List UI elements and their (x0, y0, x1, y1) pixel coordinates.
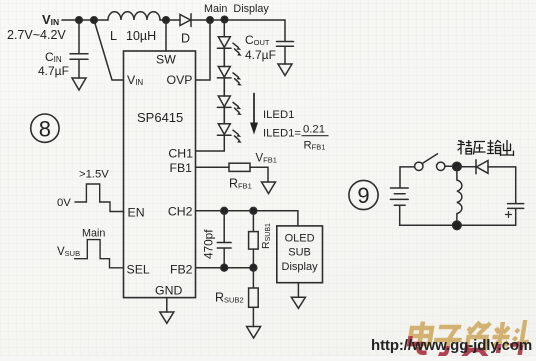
svg-text:>1.5V: >1.5V (79, 169, 109, 181)
node junction dot OVP (207, 17, 214, 24)
wire FB1 (196, 166, 229, 168)
wire battery to switch (400, 166, 415, 168)
node dot FB2-470p (221, 264, 228, 271)
node dot boost top (453, 162, 462, 171)
watermark CJK glyph dian (408, 322, 433, 353)
node dot boost bottom (453, 221, 462, 230)
svg-text:D: D (181, 32, 190, 46)
diode D (180, 14, 191, 46)
svg-text:Display: Display (282, 261, 319, 273)
capacitor CIN (38, 20, 88, 78)
wire node to diode (457, 166, 476, 168)
svg-text:RFB1: RFB1 (304, 140, 326, 152)
wire LED3-LED4 (223, 107, 225, 123)
svg-text:COUT: COUT (245, 33, 270, 47)
node figure number 8 (31, 114, 59, 142)
ground below RSUB2 (247, 327, 261, 339)
node junction dot B (91, 17, 98, 24)
wire GND pin (166, 298, 168, 312)
svg-text:CH2: CH2 (168, 205, 193, 219)
svg-text:FB2: FB2 (170, 263, 193, 277)
svg-text:OLED: OLED (285, 233, 315, 245)
watermark URL text (371, 337, 532, 354)
svg-text:http://www.gg-jdly.com: http://www.gg-jdly.com (371, 337, 532, 354)
resistor RFB1 (229, 163, 252, 190)
LED D3 (217, 79, 242, 115)
svg-text:4.7µF: 4.7µF (245, 48, 276, 62)
label >1.5V (79, 169, 109, 181)
wire diode to cap (488, 167, 516, 204)
watermark CJK red accents (407, 336, 522, 357)
watermark CJK glyph zi (432, 327, 464, 355)
wire FB2 row (196, 267, 253, 269)
label VFB1 (256, 153, 277, 165)
wire OVP pin (196, 20, 210, 80)
svg-text:CH1: CH1 (168, 147, 193, 161)
label Main (82, 228, 105, 240)
svg-text:ILED1: ILED1 (263, 109, 294, 121)
svg-text:RSUB2: RSUB2 (215, 291, 244, 305)
svg-text:RSUB1: RSUB1 (260, 223, 272, 249)
svg-text:OVP: OVP (167, 73, 193, 87)
label wen-ya-shu-chu (regulated output, 4 CJK glyphs drawn) (458, 141, 514, 156)
wire RFB1 to VFB1 node (250, 167, 268, 182)
svg-text:8: 8 (39, 117, 51, 142)
LED D4 (217, 107, 242, 143)
svg-text:9: 9 (357, 183, 369, 208)
svg-text:4.7µF: 4.7µF (38, 64, 69, 78)
capacitor boost output (506, 204, 524, 226)
waveform SEL pulse (75, 240, 124, 268)
wire CH2 row (196, 211, 298, 226)
node dot FB2-RSUB1 (250, 264, 257, 271)
battery B1 (390, 167, 408, 225)
current arrow ILED1 (250, 94, 258, 135)
node dot CH2-470p (221, 207, 228, 214)
wire LED1-LED2 (223, 48, 225, 66)
svg-text:SEL: SEL (127, 263, 150, 277)
wire diode to output rail (191, 19, 285, 21)
op-amp U1 SP6415 (124, 51, 196, 298)
OLED SUB Display box (277, 226, 323, 283)
svg-text:VFB1: VFB1 (256, 153, 277, 165)
svg-text:L: L (110, 29, 117, 43)
ground below COUT (278, 64, 292, 76)
wire switch to node (445, 165, 453, 167)
svg-text:10µH: 10µH (126, 29, 156, 43)
resistor RSUB1 (249, 211, 272, 268)
svg-text:Main Display: Main Display (204, 3, 269, 15)
resistor RSUB2 (215, 268, 258, 327)
node VIN label (7, 12, 66, 42)
node junction dot SW (163, 17, 170, 24)
watermark CJK glyph liao (490, 320, 532, 354)
inductor L 10uH (108, 12, 160, 43)
wire SW pin vertical (165, 20, 167, 51)
ground VFB1 (262, 182, 276, 194)
svg-text:0V: 0V (57, 197, 71, 209)
diode boost (points left) (476, 160, 488, 174)
node figure number 9 (349, 180, 378, 209)
svg-text:SUB: SUB (288, 247, 311, 259)
node junction dot A (76, 17, 83, 24)
wire OLED to ground (297, 283, 299, 298)
capacitor 470pF (202, 211, 232, 268)
switch S1 (415, 154, 445, 171)
label VSUB (57, 246, 80, 258)
svg-text:ILED1=: ILED1= (263, 128, 301, 140)
inductor boost (457, 167, 462, 226)
fraction bar (302, 135, 328, 137)
svg-text:VIN: VIN (127, 73, 143, 87)
svg-text:SW: SW (156, 53, 176, 67)
svg-text:VIN: VIN (42, 12, 59, 27)
wire VIN input to junction (62, 19, 108, 21)
node dot CH2-RSUB1 (250, 207, 257, 214)
svg-text:470pf: 470pf (202, 229, 216, 259)
node junction dot LED rail (221, 16, 228, 23)
svg-text:EN: EN (128, 206, 145, 220)
ground below GND (160, 312, 174, 323)
svg-text:2.7V~4.2V: 2.7V~4.2V (7, 28, 66, 42)
svg-text:0.21: 0.21 (303, 124, 325, 136)
svg-text:VSUB: VSUB (57, 246, 80, 258)
svg-text:FB1: FB1 (169, 161, 192, 175)
wire boost bottom rail (400, 224, 516, 226)
wire LED4 to CH1 (196, 135, 224, 151)
wire junction B to VIN pin (diagonal) (94, 20, 123, 80)
svg-text:RFB1: RFB1 (229, 177, 252, 191)
wire LED2-LED3 (223, 78, 225, 96)
capacitor COUT (245, 20, 294, 64)
svg-text:SP6415: SP6415 (137, 110, 183, 125)
LED D2 (217, 49, 242, 85)
label Main Display (204, 3, 269, 15)
svg-text:Main: Main (82, 228, 105, 240)
ground below OLED (291, 297, 305, 308)
svg-text:GND: GND (155, 284, 182, 298)
watermark CJK glyph zi2 (463, 322, 492, 357)
ground below CIN (72, 78, 86, 90)
svg-text:CIN: CIN (45, 50, 62, 64)
wire inductor to diode (160, 19, 180, 21)
label ILED1 (263, 109, 325, 152)
LED D1 (217, 20, 242, 56)
waveform EN pulse (75, 184, 124, 212)
label 0V (57, 197, 71, 209)
